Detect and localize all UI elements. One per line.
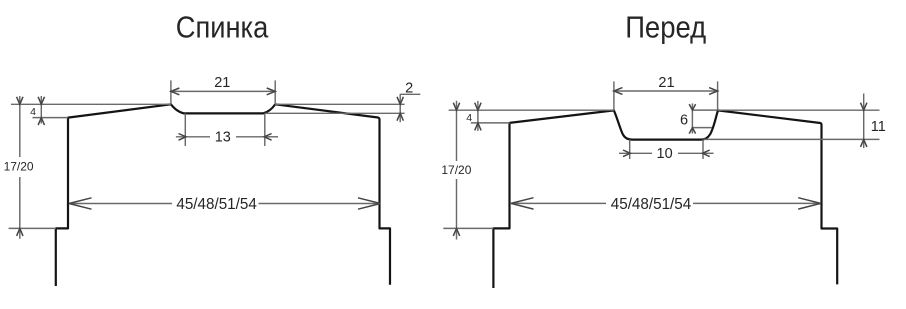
svg-text:6: 6 (680, 113, 688, 129)
front label 10 (652, 146, 678, 160)
front dimension 11 (861, 94, 867, 149)
front dimension 21 (614, 81, 718, 110)
svg-text:Спинка: Спинка (176, 11, 269, 45)
back dimension 4 line (38, 96, 44, 125)
front piece outline (493, 110, 837, 288)
front dimension 17/20 line (453, 101, 459, 240)
front: bottom extension line left (443, 227, 493, 229)
back dimension 13 (176, 113, 278, 146)
svg-text:45/48/51/54: 45/48/51/54 (611, 196, 692, 213)
svg-text:11: 11 (871, 119, 886, 135)
svg-text:4: 4 (30, 106, 36, 118)
svg-text:2: 2 (405, 81, 413, 97)
svg-text:17/20: 17/20 (4, 160, 34, 174)
front dimension 10 (619, 140, 714, 160)
front: top extension line right (718, 109, 880, 111)
front: neck-bottom extension line right (704, 138, 880, 140)
front dimension 6 (689, 103, 717, 133)
svg-text:17/20: 17/20 (441, 163, 471, 177)
back dimension 2 (397, 94, 420, 122)
svg-text:21: 21 (214, 75, 230, 91)
svg-text:45/48/51/54: 45/48/51/54 (176, 196, 257, 213)
svg-text:Перед: Перед (625, 11, 706, 45)
back dimension 45/48/51/54 (69, 198, 381, 209)
back: shoulder-level tick left (33, 117, 69, 119)
back piece outline (56, 104, 390, 286)
front: shoulder-level tick left (471, 122, 510, 124)
back: neck-top extension line right (275, 103, 404, 105)
front dimension 45/48/51/54 (511, 198, 821, 209)
back dimension 21 (171, 80, 275, 104)
svg-text:4: 4 (466, 112, 472, 124)
back: top extension line left (neck-top level) (11, 103, 171, 105)
back: neck-bottom extension line right (265, 112, 405, 114)
front: top extension line left (449, 109, 614, 111)
front dimension 4 line (475, 101, 481, 131)
svg-text:10: 10 (657, 146, 673, 162)
back label 13 (210, 130, 236, 144)
back: bottom extension line left (9, 227, 56, 229)
back dimension 17/20 line (17, 96, 23, 239)
svg-text:13: 13 (215, 130, 231, 146)
svg-text:21: 21 (658, 75, 674, 91)
